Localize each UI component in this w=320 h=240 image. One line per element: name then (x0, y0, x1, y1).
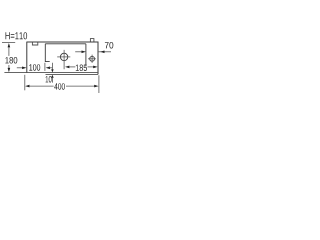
dim 180 up arrow (8, 43, 11, 47)
outline: outer body left edge (26, 42, 28, 73)
dim 400 left arrow pointing left (25, 85, 29, 88)
outline: bottom upper line with left extension for 180 dim (4, 72, 98, 74)
dim 70 right arrow pointing left near outer right edge (100, 51, 104, 54)
dim 185 right segment (88, 66, 94, 68)
overflow hole crosshair horizontal (88, 58, 96, 60)
dim 70 left arrow pointing right at basin right edge (82, 51, 86, 54)
overflow hole crosshair vertical (91, 55, 93, 63)
dim 185 right arrow pointing right at outer right edge (93, 66, 97, 69)
outline: bottom lower line (46, 73, 99, 75)
notch: top-right tab above top edge (90, 39, 94, 42)
overflow hole circle (right) (90, 56, 95, 61)
dim 100 right tail (49, 67, 52, 69)
dim 10 upper leader (51, 63, 53, 70)
dim 70 left tail (75, 51, 82, 53)
dim 185 label (76, 65, 87, 72)
dim 400 right segment (66, 85, 94, 87)
dim 185 left arrow pointing left at drain center line (65, 66, 69, 69)
dim 400 right arrow pointing right (94, 85, 98, 88)
dim 100 right arrow pointing left at basin left edge (46, 67, 50, 70)
dim 400 left segment (29, 85, 54, 87)
dim 10 up arrow onto lower bottom line (51, 75, 54, 78)
label H=110 (6, 32, 28, 39)
dim 70 right tail (98, 51, 111, 53)
dim 400 label (54, 83, 65, 90)
dim 180 top reference line (2, 42, 15, 44)
notch: top-left tab below top edge (32, 42, 37, 45)
dim 180 upper leader (8, 47, 10, 56)
outline: outer body right edge (97, 42, 99, 75)
dim 100 left arrow pointing right at outer left edge (22, 67, 26, 70)
inner basin left edge with small foot (45, 44, 49, 62)
drain hole circle (left) (60, 53, 67, 60)
inner basin top edge (45, 43, 86, 45)
dim 100 label (29, 64, 40, 71)
outline: outer body top edge (27, 41, 99, 43)
drain hole crosshair vertical and center line down to 185 dim (63, 50, 65, 69)
dim 180 label (5, 57, 17, 64)
dim 180 down arrow (8, 68, 11, 72)
dim 400 left extension line (24, 75, 26, 91)
inner basin right edge extended down to 185 dim line (85, 44, 87, 67)
dim 70 label (105, 42, 113, 49)
dim 185 left segment (69, 66, 75, 68)
dim 180 lower leader (8, 65, 10, 69)
dim 100 left tail (17, 67, 24, 69)
dim 100 right extension line (basin left edge extended) (44, 63, 46, 71)
dim 10 down arrow onto upper bottom line (51, 69, 54, 72)
drain hole crosshair horizontal (57, 56, 70, 58)
dim 400 right extension line (98, 75, 100, 93)
dim 10 lower leader (51, 78, 53, 83)
dim 10 label (46, 76, 52, 83)
